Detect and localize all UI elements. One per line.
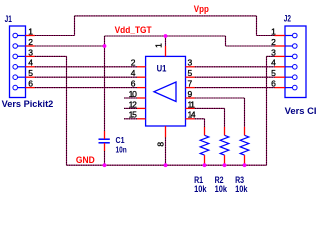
U1 left pin number 15 — [129, 110, 137, 120]
J1 pin 3 red pin — [26, 55, 35, 57]
J1 pin 1 contact circle and stub — [13, 33, 26, 38]
wire U1.11 horizontal to R2 column — [195, 107, 225, 109]
wire GND net left vertical — [66, 56, 68, 165]
resistor R3 zigzag body — [240, 135, 249, 155]
R1 reference label — [194, 175, 203, 185]
U1 top pin 1 red pin — [165, 46, 167, 56]
U1 buffer triangle symbol — [154, 82, 176, 102]
svg-text:U1: U1 — [157, 64, 167, 75]
wire J1.5 to U1.4 — [35, 76, 137, 78]
svg-text:Vdd_TGT: Vdd_TGT — [115, 25, 152, 35]
connector J2 reference label J2 — [284, 13, 291, 23]
J2 pin 1 contact circle and stub — [285, 33, 297, 38]
U1 left pin number 6 — [131, 79, 136, 89]
resistor R2 top red pin — [224, 127, 226, 135]
J2 pin 6 red pin — [275, 87, 286, 89]
J1 pin 1 red pin — [26, 35, 35, 37]
wire GND net bottom horizontal bus — [67, 164, 267, 166]
svg-text:J2: J2 — [284, 13, 291, 23]
capacitor C1 bottom red pin — [104, 143, 106, 151]
U1 left pin number 4 — [131, 68, 136, 78]
C1 value label 10n — [116, 145, 127, 155]
J1 pin 5 contact circle and stub — [13, 75, 26, 80]
J1 pin number 4 — [28, 58, 33, 68]
wire Vdd_TGT net top horizontal — [105, 35, 226, 37]
U1 left pin number 2 — [131, 58, 136, 68]
connector J1 reference label J1 — [5, 14, 12, 24]
svg-text:2: 2 — [131, 58, 136, 68]
svg-text:1: 1 — [28, 26, 33, 36]
U1 right pin 9 red pin — [186, 97, 195, 99]
wire U1.11 vertical down to R2 — [224, 108, 226, 127]
wire U1 pin1 tap to Vdd_TGT — [165, 36, 167, 46]
wire Vdd_TGT net J1.2 horizontal — [35, 45, 105, 47]
svg-text:4: 4 — [271, 58, 276, 68]
buffer IC U1 body — [146, 56, 186, 126]
U1 right pin number 14 — [188, 110, 196, 120]
junction dot GND at R2 — [223, 163, 227, 167]
svg-text:3: 3 — [28, 47, 33, 57]
svg-text:GND: GND — [76, 155, 95, 166]
R1 value label 10k — [194, 184, 207, 194]
J1 pin 4 red pin — [26, 66, 35, 68]
U1 right pin number 3 — [188, 58, 193, 68]
wire Vdd_TGT net to J2.2 — [226, 45, 275, 47]
J2 pin 3 contact circle and stub — [285, 54, 297, 59]
svg-text:1: 1 — [271, 26, 276, 36]
wire GND net to J2.3 — [267, 55, 275, 57]
resistor R3 bottom red pin — [244, 155, 246, 165]
U1 right pin number 5 — [188, 68, 193, 78]
connector J2 body — [285, 26, 306, 98]
wire Vpp net right vertical drop — [256, 16, 258, 36]
connector J2 label Vers CI — [285, 106, 317, 116]
J1 pin 6 contact circle and stub — [13, 85, 26, 90]
svg-text:7: 7 — [188, 79, 193, 89]
J1 pin 4 contact circle and stub — [13, 65, 26, 70]
svg-text:Vers Pickit2: Vers Pickit2 — [2, 99, 54, 109]
svg-text:4: 4 — [131, 68, 136, 78]
svg-text:6: 6 — [28, 79, 33, 89]
svg-text:6: 6 — [271, 79, 276, 89]
junction dot GND at R1 — [203, 163, 207, 167]
wire U1.7 to J2.6 — [195, 87, 275, 89]
R3 value label 10k — [235, 184, 248, 194]
J1 pin number 1 — [28, 26, 33, 36]
U1 right pin 7 red pin — [186, 87, 195, 89]
wire U1.14 horizontal to R1 column — [195, 118, 205, 120]
J2 pin number 1 — [271, 26, 276, 36]
capacitor C1 plates — [99, 139, 110, 143]
U1 pin number 8 rotated — [156, 142, 166, 147]
wire U1 pin8 to GND — [165, 137, 167, 165]
R3 reference label — [235, 175, 244, 185]
net label Vpp — [194, 4, 209, 14]
svg-text:10k: 10k — [235, 184, 248, 194]
J2 pin 1 red pin — [275, 35, 286, 37]
U1 left pin 10 red pin — [137, 97, 146, 99]
wire J1.6 to U1.6 — [35, 87, 137, 89]
wire GND net J1.3 horizontal — [35, 55, 67, 57]
wire Vdd_TGT net riser at x=105 — [104, 36, 106, 46]
svg-text:4: 4 — [28, 58, 33, 68]
J1 pin number 5 — [28, 68, 33, 78]
svg-text:2: 2 — [28, 37, 33, 47]
J1 pin 5 red pin — [26, 76, 35, 78]
wire stub U1 pin 15 — [124, 118, 137, 120]
wire Vpp net J1.1 horizontal — [35, 35, 75, 37]
U1 right pin number 11 — [188, 99, 196, 109]
junction dot GND at U1 pin8 — [164, 163, 168, 167]
wire U1.14 vertical down to R1 — [204, 119, 206, 127]
connector J1 body — [10, 26, 26, 98]
resistor R3 top red pin — [244, 127, 246, 135]
J2 pin number 6 — [271, 79, 276, 89]
wire stub U1 pin 12 — [124, 107, 137, 109]
J2 pin 5 contact circle and stub — [285, 75, 297, 80]
J1 pin number 6 — [28, 79, 33, 89]
junction dot GND at R3 — [243, 163, 247, 167]
J1 pin 3 contact circle and stub — [13, 54, 26, 59]
resistor R2 zigzag body — [220, 135, 229, 155]
U1 right pin 3 red pin — [186, 66, 195, 68]
svg-text:10k: 10k — [215, 184, 228, 194]
junction dot Vdd_TGT at U1 pin1 — [164, 34, 168, 38]
connector J1 label Vers Pickit2 — [2, 99, 54, 109]
U1 right pin 11 red pin — [186, 107, 195, 109]
U1 left pin 6 red pin — [137, 87, 146, 89]
U1 left pin number 10 — [129, 89, 137, 99]
U1 left pin 4 red pin — [137, 76, 146, 78]
net label GND — [76, 155, 95, 166]
svg-text:5: 5 — [188, 68, 193, 78]
svg-text:5: 5 — [28, 68, 33, 78]
svg-text:10n: 10n — [116, 145, 127, 155]
resistor R1 top red pin — [204, 127, 206, 135]
U1 left pin 15 red pin — [137, 118, 146, 120]
svg-text:6: 6 — [131, 79, 136, 89]
J2 pin number 2 — [271, 37, 276, 47]
svg-text:15: 15 — [129, 110, 137, 120]
wire Vpp net to J2.1 — [257, 35, 275, 37]
svg-text:10: 10 — [129, 89, 137, 99]
resistor R2 bottom red pin — [224, 155, 226, 165]
wire C1 bottom to GND — [104, 151, 106, 165]
J1 pin 2 red pin — [26, 45, 35, 47]
wire U1.5 to J2.5 — [195, 76, 275, 78]
J2 pin 4 contact circle and stub — [285, 65, 297, 70]
U1 bottom pin 8 red pin — [165, 126, 167, 137]
J2 pin 4 red pin — [275, 66, 286, 68]
J2 pin 6 contact circle and stub — [285, 85, 297, 90]
wire U1.3 to J2.4 — [195, 66, 275, 68]
U1 left pin number 12 — [129, 99, 137, 109]
net label Vdd_TGT — [115, 25, 152, 35]
capacitor C1 top red pin — [104, 131, 106, 139]
J2 pin number 5 — [271, 68, 276, 78]
resistor R1 zigzag body — [200, 135, 209, 155]
R2 value label 10k — [215, 184, 228, 194]
svg-text:12: 12 — [129, 99, 137, 109]
J2 pin number 3 — [271, 47, 276, 57]
U1 left pin 2 red pin — [137, 66, 146, 68]
wire U1.9 vertical down to R3 — [244, 98, 246, 127]
C1 reference label — [116, 135, 125, 145]
svg-text:9: 9 — [188, 89, 193, 99]
junction dot Vdd_TGT at C1 branch — [103, 44, 107, 48]
U1 right pin number 7 — [188, 79, 193, 89]
wire GND net right vertical — [266, 56, 268, 165]
junction dot GND at C1 — [103, 163, 107, 167]
svg-text:2: 2 — [271, 37, 276, 47]
U1 right pin 5 red pin — [186, 76, 195, 78]
wire Vpp net left vertical riser — [74, 16, 76, 36]
svg-text:Vers CI: Vers CI — [285, 106, 317, 116]
J1 pin 2 contact circle and stub — [13, 44, 26, 49]
svg-text:1: 1 — [154, 43, 164, 48]
wire Vpp net top horizontal — [75, 15, 257, 17]
J2 pin 3 red pin — [275, 55, 286, 57]
J2 pin number 4 — [271, 58, 276, 68]
J1 pin 6 red pin — [26, 87, 35, 89]
J1 pin number 2 — [28, 37, 33, 47]
svg-text:C1: C1 — [116, 135, 125, 145]
svg-text:10k: 10k — [194, 184, 207, 194]
U1 pin number 1 rotated — [154, 43, 164, 48]
U1 reference label — [157, 64, 167, 75]
R2 reference label — [215, 175, 224, 185]
U1 left pin 12 red pin — [137, 107, 146, 109]
U1 right pin number 9 — [188, 89, 193, 99]
U1 right pin 14 red pin — [186, 118, 195, 120]
svg-text:8: 8 — [156, 142, 166, 147]
svg-text:Vpp: Vpp — [194, 4, 209, 14]
svg-text:3: 3 — [188, 58, 193, 68]
svg-text:5: 5 — [271, 68, 276, 78]
J1 pin number 3 — [28, 47, 33, 57]
J2 pin 2 red pin — [275, 45, 286, 47]
J2 pin 2 contact circle and stub — [285, 44, 297, 49]
wire stub U1 pin 10 — [124, 97, 137, 99]
resistor R1 bottom red pin — [204, 155, 206, 165]
wire Vdd_TGT net drop at x=225.8 — [225, 36, 227, 46]
wire C1 top branch vertical — [104, 46, 106, 131]
svg-text:3: 3 — [271, 47, 276, 57]
svg-text:J1: J1 — [5, 14, 12, 24]
wire U1.9 horizontal to R3 column — [195, 97, 245, 99]
wire J1.4 to U1.2 — [35, 66, 137, 68]
J2 pin 5 red pin — [275, 76, 286, 78]
